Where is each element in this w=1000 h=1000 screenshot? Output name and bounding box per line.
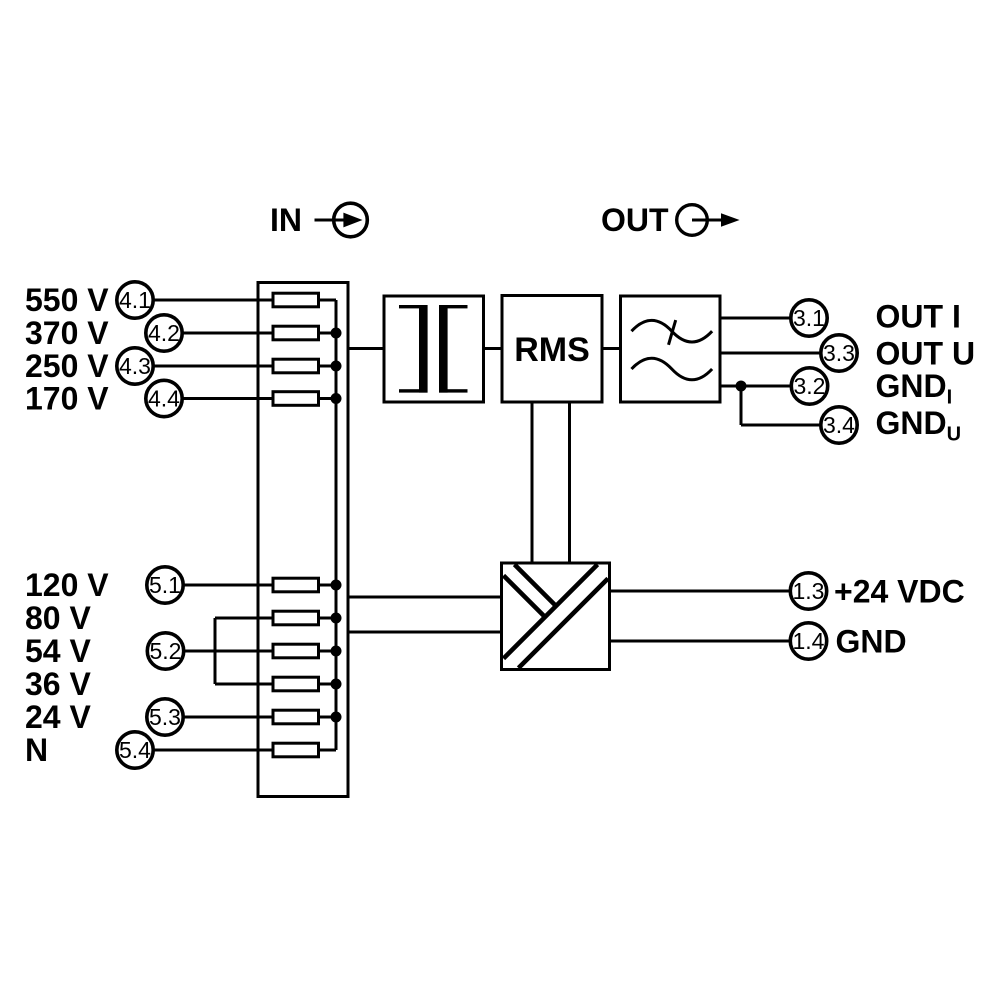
RMS converter U1 box — [502, 296, 602, 403]
junction at R3 — [331, 361, 342, 372]
terminal 1.3 — [790, 573, 826, 609]
wire terminal 5.4 to divider box — [154, 749, 260, 752]
wire filter to terminal 3.3 — [720, 352, 821, 355]
svg-text:80 V: 80 V — [25, 600, 91, 636]
junction at R7 — [331, 646, 342, 657]
svg-text:24 V: 24 V — [25, 699, 91, 735]
wire terminal 5.1 to divider box — [184, 584, 260, 587]
wire terminal 5.2 to divider box — [184, 650, 259, 653]
svg-text:54 V: 54 V — [25, 633, 91, 669]
svg-text:4.1: 4.1 — [119, 287, 151, 313]
terminal 4.4 — [146, 380, 182, 416]
svg-text:120 V: 120 V — [25, 567, 109, 603]
svg-text:5.2: 5.2 — [150, 638, 182, 664]
junction at R6 — [331, 613, 342, 624]
terminal 4.1 — [117, 282, 153, 318]
terminal 1.4 — [790, 623, 826, 659]
terminal 5.1 — [147, 567, 183, 603]
junction at R4 — [331, 393, 342, 404]
wire tap bracket top branch (80V row) — [215, 617, 259, 620]
wire terminal 4.3 to divider box — [154, 365, 260, 368]
filter symbol: crossed sine (AC rejected) — [632, 320, 713, 342]
svg-text:GND: GND — [836, 624, 907, 660]
resistor R6 (80 V) — [259, 611, 336, 625]
svg-text:250 V: 250 V — [25, 348, 109, 384]
resistor R7 (54 V) — [259, 644, 336, 658]
wire filter to terminal 3.2 — [720, 385, 792, 388]
filter symbol: sine wave (passband) — [632, 358, 713, 380]
wire divider box to transformer — [348, 347, 384, 350]
svg-text:RMS: RMS — [514, 331, 590, 369]
svg-text:5.3: 5.3 — [149, 704, 181, 730]
wire RMS to DC/DC left vertical — [531, 402, 534, 563]
svg-text:36 V: 36 V — [25, 666, 91, 702]
input voltage divider box — [258, 283, 348, 797]
svg-text:370 V: 370 V — [25, 315, 109, 351]
resistor R2 (370 V) — [259, 326, 336, 340]
svg-text:3.1: 3.1 — [793, 305, 825, 331]
node IN circle symbol — [334, 203, 368, 237]
wire RMS to DC/DC right vertical — [568, 402, 571, 563]
terminal 5.3 — [147, 699, 183, 735]
wire DC/DC to terminal 1.3 — [610, 590, 791, 593]
wire terminal 4.1 to divider box — [154, 299, 260, 302]
junction at R9 — [331, 712, 342, 723]
terminal 3.3 — [821, 335, 857, 371]
terminal 3.2 — [791, 368, 827, 404]
svg-text:1.4: 1.4 — [793, 628, 825, 654]
DC/DC converter U3 box — [502, 563, 610, 670]
wire GND branch vertical — [740, 386, 743, 425]
junction at R8 — [331, 679, 342, 690]
svg-text:OUT: OUT — [601, 202, 669, 238]
svg-text:5.4: 5.4 — [119, 737, 151, 763]
svg-text:4.4: 4.4 — [148, 386, 180, 412]
junction GND branch — [736, 381, 747, 392]
svg-text:OUT U: OUT U — [876, 336, 976, 372]
wire DC/DC to terminal 1.4 — [610, 640, 791, 643]
resistor R1 (550 V) — [259, 293, 336, 307]
resistor R9 (24 V) — [259, 710, 336, 724]
terminal 3.4 — [821, 407, 857, 443]
junction at R2 — [331, 328, 342, 339]
svg-text:1.3: 1.3 — [793, 578, 825, 604]
resistor R10 (N) — [259, 743, 336, 757]
svg-text:3.2: 3.2 — [794, 373, 826, 399]
svg-text:4.2: 4.2 — [148, 320, 180, 346]
node IN arrowhead — [343, 213, 362, 228]
wire filter to terminal 3.1 — [720, 317, 791, 320]
filter symbol slash — [669, 320, 676, 345]
svg-text:N: N — [25, 732, 48, 768]
wire tap bracket bottom branch (36V row) — [215, 683, 259, 686]
resistor R3 (250 V) — [259, 359, 336, 373]
svg-text:+24 VDC: +24 VDC — [834, 574, 965, 610]
node OUT circle symbol — [677, 205, 708, 236]
wire tap bracket vertical (ties 80V / 54V / 36V rows) — [214, 618, 217, 684]
transformer T1 box — [384, 296, 484, 402]
wire terminal 4.4 to divider box — [183, 397, 260, 400]
resistor R8 (36 V) — [259, 677, 336, 691]
terminal 4.2 — [146, 315, 182, 351]
transformer T1 winding symbol — [399, 305, 468, 393]
wire GND branch to terminal 3.4 — [741, 424, 821, 427]
wire divider box to DC/DC lower — [348, 631, 502, 634]
terminal 5.4 — [117, 732, 153, 768]
filter U2 box — [621, 296, 721, 402]
junction at R5 — [331, 580, 342, 591]
wire IN arrow shaft — [315, 219, 347, 222]
wire divider box to DC/DC upper — [348, 596, 502, 599]
svg-text:IN: IN — [270, 202, 302, 238]
svg-text:5.1: 5.1 — [149, 572, 181, 598]
node OUT arrowhead — [721, 213, 740, 227]
DC/DC converter symbol — [504, 565, 609, 669]
terminal 3.1 — [791, 300, 827, 336]
svg-text:170 V: 170 V — [25, 381, 109, 417]
svg-text:4.3: 4.3 — [119, 353, 151, 379]
svg-text:3.4: 3.4 — [823, 412, 855, 438]
resistor R5 (120 V) — [259, 578, 336, 592]
terminal 4.3 — [117, 348, 153, 384]
svg-text:550 V: 550 V — [25, 282, 109, 318]
terminal 5.2 — [147, 633, 183, 669]
wire terminal 4.2 to divider box — [183, 332, 260, 335]
wire OUT arrow shaft — [692, 219, 726, 222]
wire divider common bus vertical — [335, 300, 338, 750]
wire terminal 5.3 to divider box — [184, 716, 260, 719]
wire transformer to RMS converter — [484, 347, 503, 350]
svg-text:3.3: 3.3 — [823, 340, 855, 366]
svg-text:OUT I: OUT I — [876, 299, 961, 335]
wire RMS converter to filter — [602, 347, 621, 350]
resistor R4 (170 V) — [259, 392, 336, 406]
svg-text:GNDI: GNDI — [876, 368, 953, 409]
